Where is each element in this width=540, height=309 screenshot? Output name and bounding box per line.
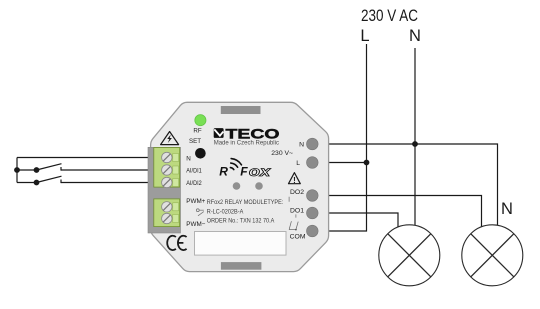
module bottom mounting tab bbox=[221, 262, 262, 270]
svg-text:R-LC-0202B-A: R-LC-0202B-A bbox=[207, 208, 244, 215]
svg-text:L: L bbox=[296, 160, 300, 167]
svg-text:!: ! bbox=[293, 176, 296, 185]
terminal DO2 bbox=[307, 190, 319, 202]
terminal screw AI/DI1 bbox=[162, 165, 172, 175]
wire L supply vertical down to COM wire bbox=[317, 44, 367, 231]
svg-text:R: R bbox=[219, 165, 228, 179]
svg-text:PWM−: PWM− bbox=[186, 221, 205, 228]
relay module U1 body bbox=[151, 102, 329, 271]
terminal DO1 bbox=[307, 207, 319, 219]
terminal block upper (N, AI/DI1, AI/DI2) bbox=[154, 148, 180, 188]
switch S1 blade bbox=[37, 164, 62, 170]
lamp E1 bbox=[379, 225, 440, 286]
svg-text:SET: SET bbox=[189, 138, 201, 145]
wire left rail vertical bbox=[16, 158, 18, 183]
relay contact diagram DO1 bbox=[289, 214, 298, 229]
wire N supply vertical down to lamp E1 bbox=[414, 48, 416, 225]
svg-text:N: N bbox=[409, 27, 421, 45]
wire module L terminal to L supply bbox=[317, 162, 367, 164]
terminal screw PWM+ bbox=[162, 202, 172, 212]
SET pushbutton bbox=[195, 148, 206, 159]
svg-text:ORDER No.: TXN 132 70.A: ORDER No.: TXN 132 70.A bbox=[207, 217, 275, 224]
wire rail to switch S2 bbox=[17, 182, 37, 184]
svg-text:Made in Czech Republic: Made in Czech Republic bbox=[214, 139, 279, 146]
CE marking bbox=[167, 236, 186, 250]
svg-text:COM: COM bbox=[290, 234, 306, 241]
wire DO2 terminal to lamp E2 bbox=[317, 196, 482, 227]
wire switch S1 to AI/DI1 bbox=[61, 169, 155, 171]
svg-text:ox: ox bbox=[249, 164, 271, 179]
svg-text:F: F bbox=[240, 165, 248, 179]
junction rail-S1 bbox=[14, 167, 20, 173]
svg-text:N: N bbox=[186, 155, 191, 162]
wire module N terminal to lamp E2 (via top right corner) bbox=[317, 144, 498, 225]
lamp E2 bbox=[462, 225, 523, 286]
switch S2 pole node bbox=[34, 180, 40, 186]
switch S2 fixed contact bbox=[60, 180, 62, 184]
svg-text:DO2: DO2 bbox=[290, 189, 304, 196]
status dots bbox=[233, 182, 241, 190]
svg-text:L: L bbox=[360, 27, 369, 45]
wire rail to switch S1 bbox=[17, 169, 37, 171]
TECO logo mark bbox=[214, 128, 224, 138]
svg-text:DO1: DO1 bbox=[290, 207, 304, 214]
terminal N bbox=[307, 138, 319, 150]
svg-text:AI/DI2: AI/DI2 bbox=[186, 180, 202, 187]
wire left rail to module N input bbox=[17, 157, 155, 159]
svg-text:230 V AC: 230 V AC bbox=[361, 7, 418, 25]
junction L supply / L terminal bbox=[364, 160, 370, 166]
terminal block backing bbox=[148, 147, 181, 233]
switch S1 pole node bbox=[34, 167, 40, 173]
svg-text:N: N bbox=[299, 142, 304, 149]
module top mounting tab bbox=[221, 106, 261, 114]
label field bbox=[195, 232, 287, 256]
warning triangle (!) bbox=[289, 173, 301, 185]
switch S2 blade bbox=[37, 176, 62, 182]
LED indicator (green) bbox=[195, 115, 206, 126]
svg-text:230 V~: 230 V~ bbox=[271, 150, 293, 157]
svg-text:RF: RF bbox=[193, 127, 201, 134]
junction N supply / N terminal wire bbox=[412, 141, 418, 147]
svg-text:PWM+: PWM+ bbox=[186, 198, 205, 205]
RFox logo bbox=[219, 159, 271, 179]
PWM output symbol bbox=[196, 209, 203, 216]
svg-text:RFox2 RELAY MODULETYPE:: RFox2 RELAY MODULETYPE: bbox=[207, 199, 284, 206]
terminal screw AI/DI2 bbox=[162, 177, 172, 187]
warning triangle (lightning) bbox=[161, 132, 179, 145]
terminal screw PWM- bbox=[162, 213, 172, 223]
wire DO1 terminal to lamp E1 bbox=[317, 213, 398, 227]
relay contact diagram DO2 bbox=[289, 197, 291, 230]
terminal screw N bbox=[162, 152, 172, 162]
terminal block lower (PWM) bbox=[154, 199, 180, 227]
svg-text:AI/DI1: AI/DI1 bbox=[186, 167, 202, 174]
wire switch S2 to AI/DI2 bbox=[61, 182, 155, 184]
terminal L bbox=[307, 157, 319, 169]
switch S1 fixed contact bbox=[60, 167, 62, 171]
svg-text:N: N bbox=[501, 200, 513, 218]
terminal COM bbox=[307, 225, 319, 237]
